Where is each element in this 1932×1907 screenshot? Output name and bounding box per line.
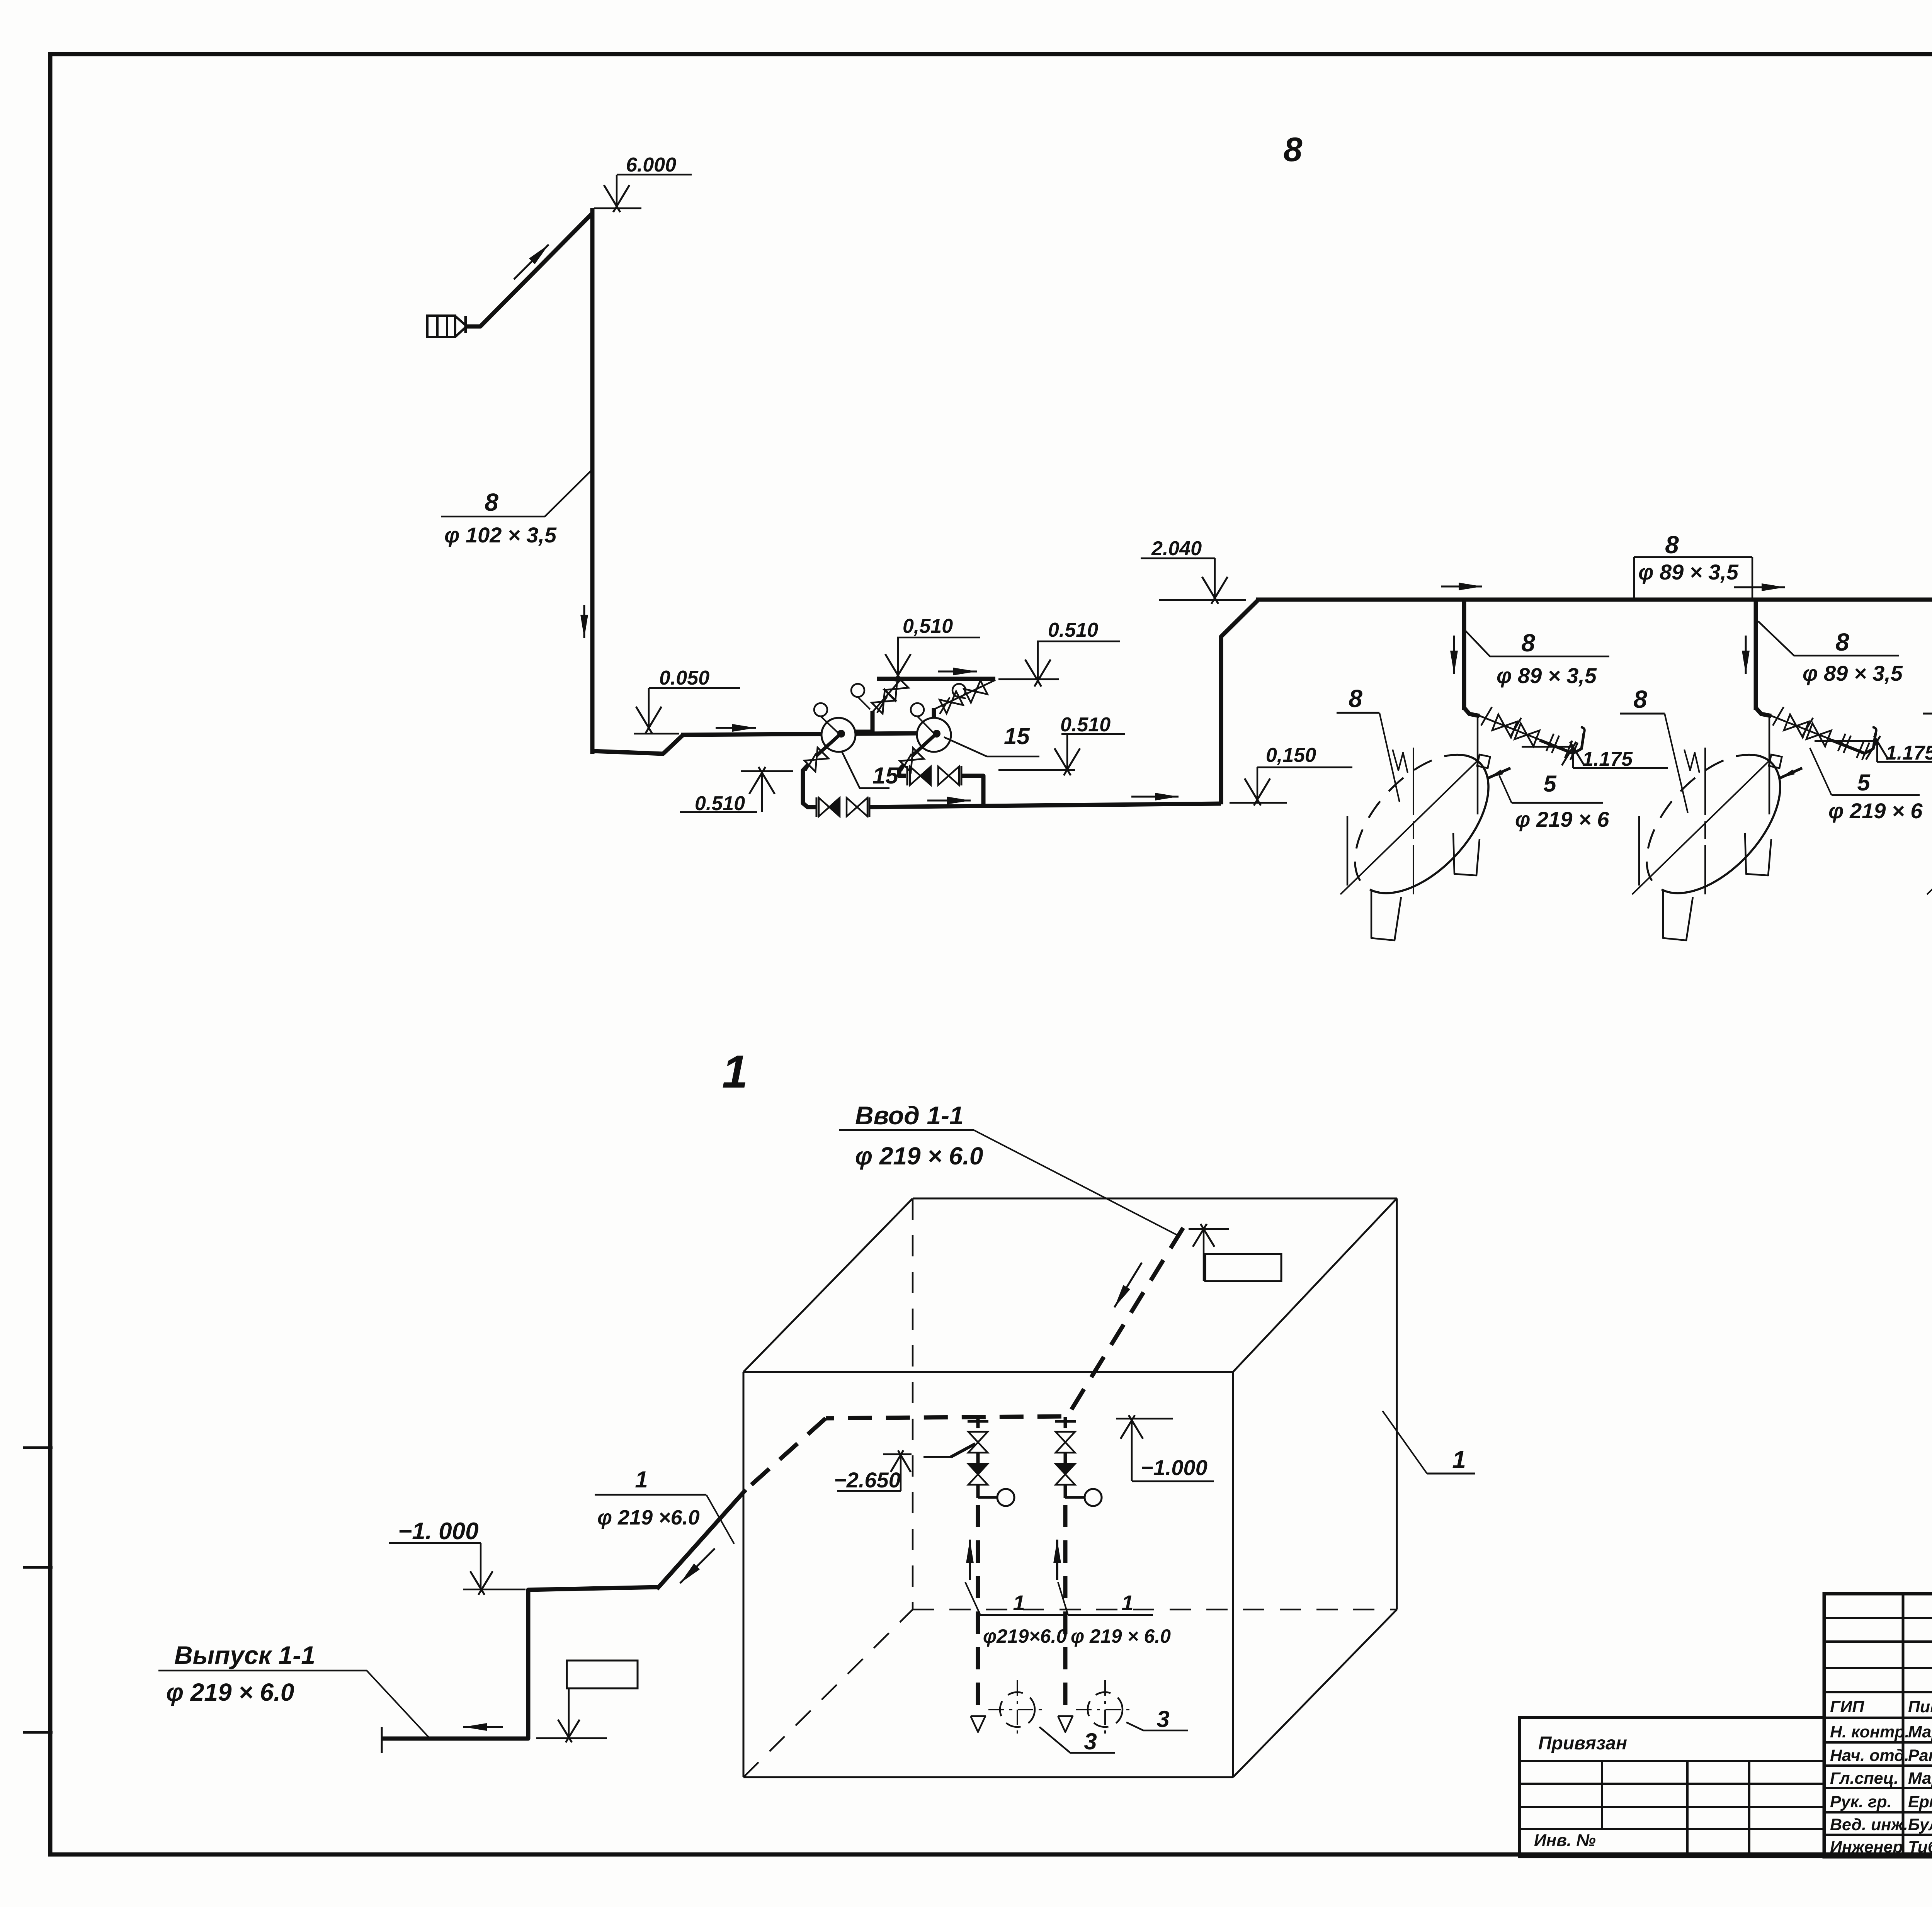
svg-text:5: 5: [1857, 770, 1871, 795]
tank box: top-left diagonal: [743, 1198, 913, 1372]
outlet flag symbol: [567, 1661, 638, 1688]
label 1 / phi219x6.0 (riser B): [1068, 1614, 1153, 1616]
pump P1 shaft: [816, 734, 840, 756]
wire: suction continues to P2: [922, 731, 934, 736]
sig table row line 4: [1824, 1717, 1932, 1719]
sig table row line 0: [1824, 1617, 1932, 1619]
bypass2 valve V4: [938, 767, 959, 785]
centering tick left 3: [23, 1731, 53, 1734]
svg-text:Гл.спец.: Гл.спец.: [1830, 1769, 1898, 1788]
wire: outlet pipe sloped: [657, 1490, 746, 1589]
privyazan col 0: [1601, 1761, 1603, 1829]
flow arrow on suction header: [716, 727, 756, 729]
elevation 1.175 (cyclone 1): [1522, 746, 1573, 748]
sig table row line 8: [1824, 1811, 1932, 1814]
bypass valve V2: [847, 798, 867, 816]
svg-text:Н. контр.: Н. контр.: [1830, 1723, 1909, 1741]
sig table row line 3: [1824, 1691, 1932, 1693]
svg-text:Ввод 1-1: Ввод 1-1: [855, 1101, 964, 1130]
valve on P2 discharge 1: [940, 691, 963, 713]
svg-text:1: 1: [722, 1046, 748, 1098]
privyazan table outer: [1519, 1717, 1824, 1857]
hydrocyclone unit 2: [1622, 600, 1876, 940]
elevation 1.175 (cyclone 2): [1815, 740, 1877, 742]
svg-text:8: 8: [1633, 685, 1647, 713]
wire: main vertical pipe phi102: [590, 208, 595, 754]
valve on P2 discharge 2: [964, 680, 988, 702]
car-wash inlet symbol (hatched box): [427, 316, 455, 337]
leader to riser: [545, 469, 593, 517]
weld slash P1 drain: [806, 753, 816, 771]
tank box: bottom-left diagonal (hidden): [743, 1610, 913, 1777]
svg-text:Ратников: Ратников: [1908, 1746, 1932, 1765]
riser A check valve: [968, 1464, 988, 1485]
wire: bypass to main run: [869, 804, 1221, 807]
pump intake circle A: [1000, 1692, 1035, 1727]
flag rectangle at inlet: [1205, 1254, 1281, 1281]
privyazan row line 3: [1519, 1806, 1824, 1808]
svg-text:Выпуск 1-1: Выпуск 1-1: [174, 1641, 315, 1669]
riser A gate valve: [968, 1432, 988, 1453]
wire: cyclone distribution header: [1256, 598, 1932, 602]
riser B gate valve: [1056, 1432, 1075, 1453]
svg-text:8: 8: [1284, 130, 1303, 168]
P1 drain valve: [804, 748, 828, 772]
centering tick left 2: [23, 1566, 53, 1569]
svg-text:1: 1: [1013, 1591, 1025, 1615]
svg-text:0,150: 0,150: [1266, 744, 1316, 767]
svg-text:φ 219 × 6.0: φ 219 × 6.0: [166, 1678, 294, 1706]
svg-text:1.175: 1.175: [1886, 742, 1932, 764]
svg-text:8: 8: [485, 488, 498, 516]
svg-text:1: 1: [635, 1467, 648, 1492]
tank box: front-left vertical: [743, 1372, 745, 1777]
svg-text:8: 8: [1835, 628, 1849, 656]
svg-text:3: 3: [1156, 1706, 1169, 1732]
riser A outlet triangle: [971, 1716, 985, 1732]
bypass valve V2 end bar: [869, 797, 871, 817]
sig table row line 9: [1824, 1834, 1932, 1836]
inlet stem tick: [464, 316, 467, 333]
riser A flow arrow up: [969, 1540, 971, 1580]
svg-text:−1. 000: −1. 000: [398, 1518, 479, 1545]
flow arrow on discharge header: [938, 671, 977, 673]
pump P1 discharge elbow: [855, 711, 872, 732]
riser B flow arrow up: [1056, 1540, 1058, 1580]
wire: riser A (hidden): [976, 1505, 980, 1715]
svg-text:5: 5: [1543, 771, 1557, 797]
svg-text:Марионков: Марионков: [1908, 1723, 1932, 1741]
svg-text:Булычева: Булычева: [1908, 1815, 1932, 1834]
svg-text:Нач. отд.: Нач. отд.: [1830, 1746, 1909, 1765]
wire: suction riser diagonal pipe: [466, 213, 592, 326]
flow arrow on bypass run: [927, 800, 971, 802]
label 8 / phi89x3,5 (drop 2): [1758, 621, 1899, 656]
pump discharge header 0.510: [877, 677, 995, 681]
label 5 / phi219x6 (cyclone 2): [1832, 794, 1920, 796]
sig table row line 5: [1824, 1741, 1932, 1744]
wire: outlet pipe horizontal -1.000: [383, 1587, 659, 1739]
privyazan row line 2: [1519, 1783, 1824, 1785]
pump P1 body: [821, 718, 855, 752]
wire: riser B (hidden): [1063, 1505, 1068, 1715]
svg-text:Вед. инж.: Вед. инж.: [1830, 1815, 1908, 1834]
svg-text:3: 3: [1084, 1729, 1097, 1754]
gauge on pump P2: [911, 703, 924, 716]
svg-text:φ 219 × 6.0: φ 219 × 6.0: [855, 1142, 983, 1170]
svg-text:φ 89 × 3,5: φ 89 × 3,5: [1638, 560, 1739, 584]
inlet funnel cone: [455, 316, 466, 337]
pump P2 discharge stub: [932, 708, 936, 718]
tank box: back-right vertical: [1396, 1198, 1398, 1610]
flow arrow down on riser: [583, 605, 585, 638]
sig table row line 6: [1824, 1764, 1932, 1767]
svg-text:1.175: 1.175: [1582, 748, 1633, 770]
privyazan row line 4: [1519, 1828, 1824, 1830]
riser A tee bar: [968, 1420, 988, 1423]
valve on P1 discharge 2: [884, 677, 908, 701]
flow arrow before riser to header 2.040: [1131, 796, 1179, 798]
privyazan col 2: [1748, 1761, 1750, 1857]
pump P2 discharge pipe w/ valves: [934, 680, 995, 709]
weld slash P2 drain: [901, 754, 912, 771]
outlet end tick: [381, 1727, 383, 1753]
svg-text:φ219×6.0: φ219×6.0: [983, 1625, 1067, 1647]
svg-text:φ 219 × 6.0: φ 219 × 6.0: [1071, 1625, 1171, 1647]
flow arrow on sloped outlet: [680, 1548, 715, 1583]
gauge on pump P1: [814, 703, 827, 716]
svg-text:1: 1: [1121, 1591, 1133, 1615]
riser B gauge: [1065, 1496, 1085, 1499]
tank box: front bottom edge: [743, 1776, 1233, 1778]
tank box: front top edge: [743, 1371, 1233, 1373]
hydrocyclone unit 3: [1917, 600, 1932, 940]
sig table row line 1: [1824, 1640, 1932, 1643]
svg-text:φ 219 × 6: φ 219 × 6: [1828, 799, 1923, 823]
elevation mark at inlet (no value): [1189, 1228, 1229, 1230]
svg-text:0.510: 0.510: [1060, 714, 1111, 736]
svg-text:φ 102 × 3,5: φ 102 × 3,5: [444, 523, 557, 547]
flow arrow on outlet: [463, 1726, 503, 1728]
svg-text:φ 219 × 6: φ 219 × 6: [1515, 807, 1609, 831]
svg-text:Пивторак: Пивторак: [1908, 1698, 1932, 1716]
centering tick left 1: [23, 1446, 53, 1449]
svg-text:Ермакова: Ермакова: [1908, 1793, 1932, 1811]
wire: P1 drain elbow: [803, 764, 816, 807]
weld slash P1a: [877, 696, 887, 713]
svg-text:Рук. гр.: Рук. гр.: [1830, 1793, 1891, 1811]
bypass2 valve V3 (filled): [910, 767, 931, 785]
svg-text:Инв. №: Инв. №: [1534, 1831, 1596, 1850]
svg-text:φ 219 ×6.0: φ 219 ×6.0: [597, 1506, 700, 1529]
svg-text:Привязан: Привязан: [1538, 1733, 1627, 1754]
flow arrow on header before drop1: [1441, 586, 1482, 588]
svg-text:φ 89 × 3,5: φ 89 × 3,5: [1497, 663, 1597, 688]
svg-text:8: 8: [1665, 531, 1679, 559]
valve on P1 discharge 1: [872, 690, 896, 714]
label 5 / phi219x6 (cyclone 1): [1512, 802, 1603, 804]
wire: suction header 0.050: [681, 733, 922, 735]
tank box: top back edge: [913, 1198, 1397, 1200]
svg-text:0.050: 0.050: [659, 667, 709, 689]
flow arrow on inlet pipe: [1114, 1263, 1142, 1307]
weld slash P2a: [940, 697, 950, 714]
hydrocyclone unit 1: [1330, 600, 1585, 940]
P2 drain valve: [900, 748, 924, 772]
wire: bottom elbow of riser: [592, 735, 683, 754]
svg-text:−1.000: −1.000: [1141, 1455, 1207, 1480]
svg-text:6.000: 6.000: [626, 154, 676, 176]
wire: inlet pipe (hidden) into tank: [826, 1228, 1183, 1418]
wire: bypass2 to junction: [961, 776, 983, 805]
bypass2 start bar: [906, 766, 908, 785]
sig table row line 7: [1824, 1787, 1932, 1789]
label 3 (intake A): [1039, 1727, 1115, 1753]
tank box: front-right vertical: [1232, 1372, 1234, 1777]
flow arrow on diagonal: [514, 245, 549, 279]
riser A gauge: [978, 1496, 997, 1499]
riser B check valve: [1056, 1464, 1075, 1485]
pump intake circle B: [1088, 1692, 1122, 1727]
vertical: sig table col 1: [1902, 1594, 1905, 1857]
wire: riser to cyclone header: [1221, 600, 1258, 804]
pump P1 discharge pipe w/ valves: [872, 680, 900, 712]
svg-text:15: 15: [1004, 723, 1030, 749]
label 1 / phi219x6.0 (riser A): [980, 1614, 1065, 1616]
riser B outlet triangle: [1058, 1716, 1073, 1732]
gauge on P1 discharge: [851, 684, 864, 697]
gauge on P2 discharge: [952, 684, 966, 697]
svg-text:ГИП: ГИП: [1830, 1698, 1864, 1716]
label 3 (intake B): [1126, 1722, 1188, 1730]
bypass line 1 start bar: [816, 797, 818, 817]
sig table row line 2: [1824, 1667, 1932, 1669]
svg-text:8: 8: [1521, 629, 1535, 657]
svg-text:0,510: 0,510: [903, 615, 953, 637]
tank box: top-right diagonal: [1233, 1198, 1397, 1372]
pump P2 shaft: [912, 734, 935, 756]
bypass valve V1 (filled): [819, 798, 840, 816]
svg-text:φ 89 × 3,5: φ 89 × 3,5: [1803, 661, 1903, 685]
privyazan col 1: [1686, 1761, 1689, 1857]
riser B tee bar: [1055, 1420, 1076, 1423]
pump P2 body: [917, 718, 951, 752]
tank box: bottom-right diagonal: [1233, 1610, 1397, 1777]
datum extension to riser valve: [923, 1456, 951, 1458]
svg-text:0.510: 0.510: [1048, 619, 1098, 641]
flow arrow on header before drop2: [1734, 586, 1785, 588]
title block outer: [1824, 1594, 1932, 1857]
privyazan row line 1: [1519, 1760, 1824, 1762]
svg-text:8: 8: [1349, 685, 1362, 712]
bypass2 end bar: [961, 766, 963, 785]
tank box: back bottom edge (hidden): [913, 1609, 1397, 1611]
svg-text:15: 15: [872, 763, 899, 789]
svg-text:Тиблова: Тиблова: [1908, 1838, 1932, 1856]
svg-text:2.040: 2.040: [1151, 537, 1202, 560]
svg-text:Марионков: Марионков: [1908, 1769, 1932, 1788]
leader to inlet point: [974, 1130, 1177, 1235]
wire: P2 drain elbow: [899, 765, 906, 776]
tank box: back-left vertical (hidden): [912, 1198, 914, 1610]
label 8 / phi89x3,5 (drop 1): [1465, 630, 1609, 656]
svg-text:Инженер: Инженер: [1830, 1838, 1903, 1856]
svg-text:1: 1: [1452, 1446, 1466, 1474]
